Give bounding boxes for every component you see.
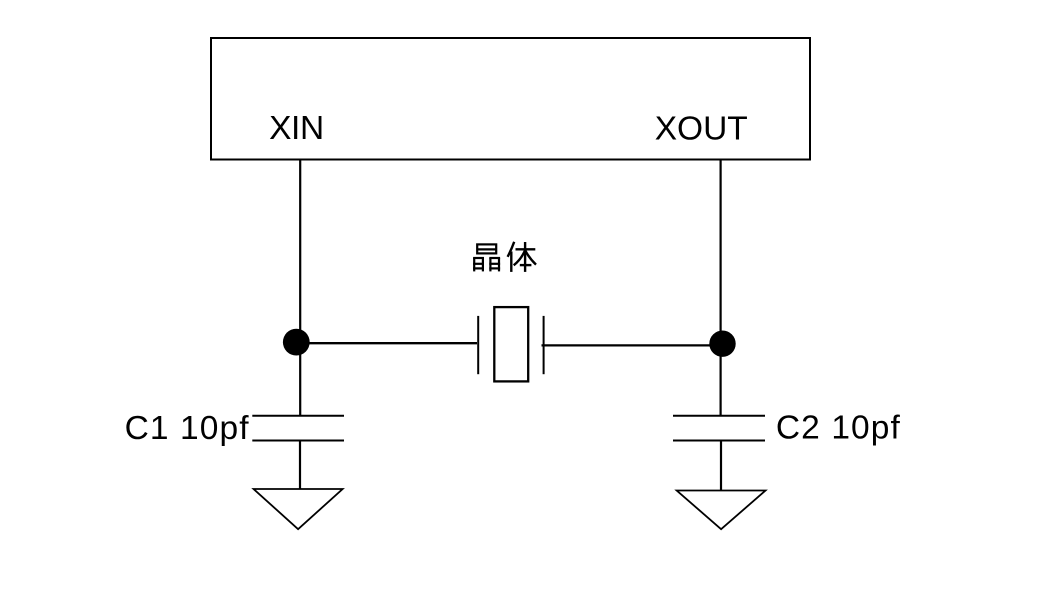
- svg-text:C2 10pf: C2 10pf: [776, 410, 901, 447]
- svg-text:XIN: XIN: [269, 110, 324, 147]
- svg-text:XOUT: XOUT: [655, 110, 748, 147]
- svg-text:C1 10pf: C1 10pf: [125, 410, 250, 447]
